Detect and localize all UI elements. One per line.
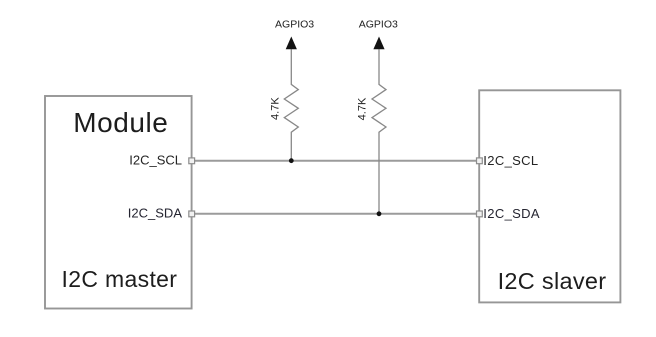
svg-text:I2C_SDA: I2C_SDA (128, 206, 183, 221)
svg-text:Module: Module (73, 107, 168, 138)
svg-text:4.7K: 4.7K (356, 97, 368, 120)
svg-text:AGPIO3: AGPIO3 (275, 18, 314, 30)
svg-text:I2C_SCL: I2C_SCL (129, 152, 182, 167)
svg-text:I2C_SDA: I2C_SDA (483, 206, 540, 221)
svg-text:4.7K: 4.7K (270, 97, 282, 120)
svg-text:I2C slaver: I2C slaver (498, 268, 607, 294)
svg-text:I2C master: I2C master (62, 266, 178, 292)
svg-text:I2C_SCL: I2C_SCL (483, 153, 538, 168)
svg-text:AGPIO3: AGPIO3 (359, 18, 398, 30)
